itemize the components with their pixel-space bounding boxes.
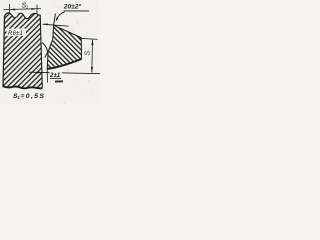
- svg-text:2±1: 2±1: [49, 72, 61, 79]
- paper background: [0, 0, 100, 105]
- dimension S1 left extension line: [9, 4, 11, 14]
- left plate body hatch: [3, 13, 42, 88]
- dimension S1 right arrow: [31, 8, 37, 10]
- right plate right edge: [80, 38, 82, 59]
- dimension 2±1 right extension line: [46, 69, 48, 83]
- groove root radius R6 curve: [42, 43, 48, 57]
- left plate right edge: [40, 15, 42, 88]
- right plate bottom edge: [47, 59, 81, 69]
- dimension S bottom arrow: [91, 67, 93, 72]
- scan noise speckles: [2, 3, 97, 104]
- dimension S1 line: [4, 9, 42, 10]
- dimension S1 left arrow: [10, 9, 16, 11]
- dimension S top extension line: [80, 38, 97, 39]
- dimension 2±1 line merged with S bottom extension: [29, 72, 100, 74]
- dimension S1 right extension line: [36, 5, 38, 15]
- right plate top edge: [54, 25, 82, 38]
- dimension S top arrow: [91, 40, 93, 45]
- svg-text:=0,5S: =0,5S: [20, 93, 45, 100]
- left plate R6 text window: [7, 29, 27, 36]
- label 20±2° underline: [64, 10, 89, 12]
- svg-text:20±2°: 20±2°: [63, 3, 82, 11]
- left plate top break line: [4, 13, 40, 19]
- angle reference line with arrow: [43, 24, 69, 26]
- svg-text:R6±1: R6±1: [8, 31, 23, 37]
- right plate bevel edge with extension and overshoot: [45, 14, 56, 58]
- leader arrow 20±2°: [56, 17, 59, 21]
- right plate root face: [46, 52, 49, 69]
- label 2±1 backing: [49, 70, 61, 77]
- left plate bottom break line: [3, 86, 43, 88]
- label 2±1 underline: [50, 77, 61, 79]
- dimension 2±1 right arrow: [47, 72, 53, 74]
- dimension 2±1 left arrow: [37, 71, 43, 73]
- angle reference arrow: [42, 23, 48, 25]
- right plate body hatch: [47, 25, 81, 69]
- dimension S line: [91, 40, 94, 73]
- stray ink mark: [55, 80, 63, 82]
- left plate left edge: [3, 16, 5, 88]
- leader from 20±2°: [56, 12, 64, 20]
